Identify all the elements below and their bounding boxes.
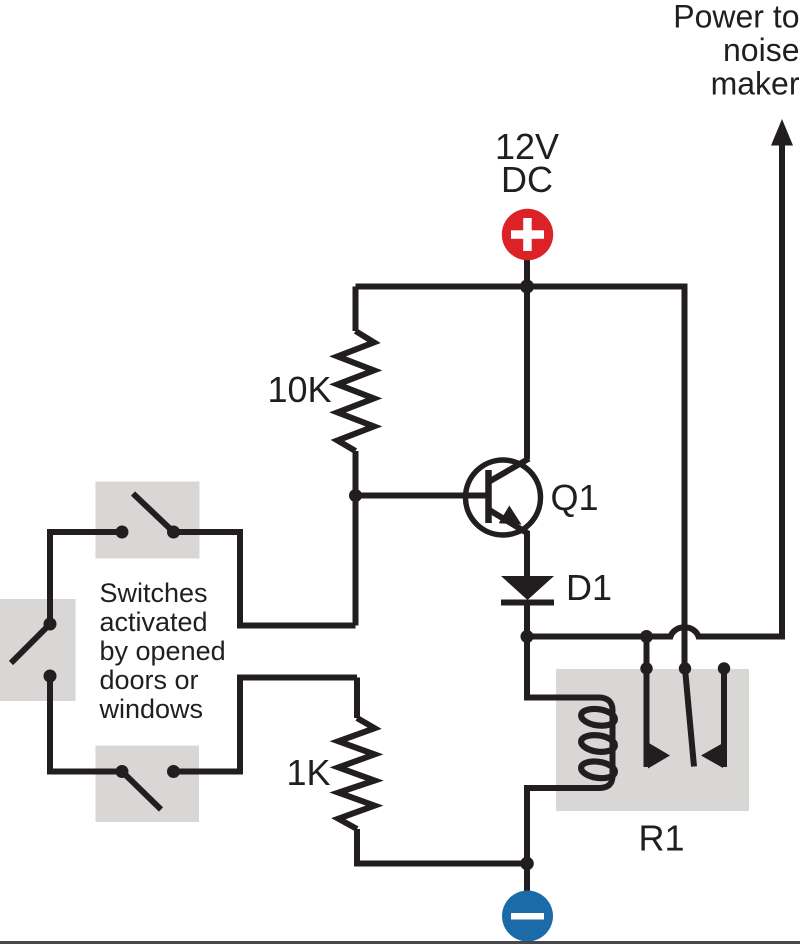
switch box bottom (gray background) bbox=[96, 746, 200, 823]
positive supply terminal bbox=[502, 209, 553, 260]
wire: 10K top lead bbox=[353, 287, 359, 332]
wire: 10K bottom lead to base node bbox=[353, 451, 359, 496]
wire: base wire to Q1 bbox=[356, 493, 488, 499]
arrowhead to noise maker bbox=[771, 119, 793, 146]
wire: coil return to negative rail bbox=[527, 788, 599, 863]
wire: base node down to switch branch bbox=[353, 496, 359, 626]
diode D1 bbox=[501, 576, 554, 606]
svg-text:D1: D1 bbox=[566, 567, 612, 608]
svg-text:windows: windows bbox=[99, 694, 204, 724]
svg-text:1K: 1K bbox=[286, 752, 330, 793]
switch box left (gray background) bbox=[0, 599, 76, 701]
relay pole contact line (slanted) bbox=[685, 669, 694, 767]
junction dot at negative node bbox=[520, 857, 534, 871]
wire: coil feed from diode node bbox=[527, 637, 599, 698]
wire: bottom switch to 1K branch bbox=[174, 678, 358, 772]
svg-text:Power to: Power to bbox=[673, 0, 799, 35]
junction dot at base node bbox=[349, 489, 362, 502]
svg-text:activated: activated bbox=[100, 607, 208, 637]
wire: 1K top lead from switch branch bbox=[354, 678, 360, 719]
relay terminal dot right bbox=[718, 662, 730, 674]
svg-text:10K: 10K bbox=[267, 369, 331, 410]
relay coil loops bbox=[580, 707, 616, 780]
wire: negative terminal lead bbox=[524, 864, 530, 894]
page footer rule bbox=[0, 941, 800, 944]
wire: diode cathode lead bbox=[524, 602, 530, 637]
svg-text:DC: DC bbox=[501, 159, 553, 200]
junction dot at diode output node bbox=[521, 630, 534, 643]
junction dot left contact on output run bbox=[640, 630, 653, 643]
svg-text:maker: maker bbox=[711, 66, 800, 102]
relay left contact line bbox=[644, 637, 650, 768]
transistor Q1 bbox=[466, 459, 541, 536]
wire: top switch to base branch bbox=[174, 532, 356, 626]
relay terminal dot pole bbox=[679, 662, 691, 674]
svg-text:Switches: Switches bbox=[100, 578, 208, 608]
wire: collector lead bbox=[524, 287, 530, 460]
wire: 1K bottom lead to negative rail corner bbox=[357, 829, 527, 864]
switch S1 terminal dots bbox=[116, 526, 129, 539]
relay right contact arrow bbox=[701, 743, 723, 768]
switch S3 terminal dots bbox=[116, 765, 129, 778]
wire: positive terminal lead bbox=[524, 258, 530, 287]
switch S3 lever (bottom) bbox=[122, 772, 161, 810]
relay right contact line bbox=[721, 669, 727, 768]
relay terminal dot left bbox=[640, 662, 652, 674]
relay coil right connector bbox=[599, 698, 613, 789]
wire: emitter lead to diode bbox=[524, 531, 530, 577]
switch S2 lever (left) bbox=[11, 624, 50, 663]
negative supply terminal bbox=[502, 891, 553, 942]
relay left contact arrow bbox=[648, 743, 670, 769]
switch S1 lever (top) bbox=[133, 494, 174, 533]
svg-text:Q1: Q1 bbox=[551, 477, 599, 518]
relay R1 box (gray background) bbox=[556, 669, 749, 811]
resistor 1K zigzag bbox=[338, 718, 374, 829]
svg-text:doors or: doors or bbox=[100, 665, 199, 695]
wire: top switch to left column bbox=[50, 532, 122, 624]
svg-text:by opened: by opened bbox=[100, 636, 226, 666]
wire: top rail and right drop to relay pole bbox=[356, 287, 685, 669]
resistor 10K zigzag bbox=[338, 331, 375, 451]
switch S2 terminal dots bbox=[44, 618, 57, 631]
svg-text:noise: noise bbox=[723, 32, 800, 68]
wire: left column lower segment to bottom switch bbox=[50, 676, 122, 772]
wire: output run with hump over relay pole wire, to arrow riser bbox=[527, 143, 782, 637]
svg-text:R1: R1 bbox=[638, 818, 684, 859]
switch box top (gray background) bbox=[96, 482, 200, 559]
junction dot at positive rail bbox=[520, 280, 534, 294]
